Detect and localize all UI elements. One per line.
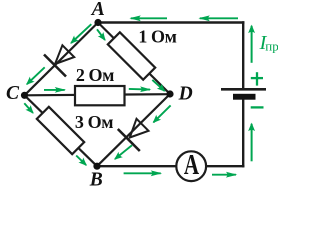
current arrow: branch A-D near A xyxy=(97,29,105,40)
battery polarity label plus xyxy=(251,72,263,85)
current arrow: up along right wire below battery xyxy=(251,124,253,162)
current arrow: branch A-C near A xyxy=(71,24,91,43)
current arrow: branch A-C near C xyxy=(27,67,45,84)
ammeter PA body xyxy=(176,151,206,181)
wire: right vertical upper, corner to battery positive plate xyxy=(242,21,244,88)
node C junction dot xyxy=(21,92,28,99)
current arrow: branch C-B into B xyxy=(76,156,86,166)
current arrow: branch C-B near C xyxy=(24,103,33,113)
diode VD1 triangle (anode at A side, pointing to C) xyxy=(55,45,74,64)
wire: top horizontal from node A to top-right corner xyxy=(98,21,244,23)
wire: bottom horizontal, corner to ammeter right terminal xyxy=(207,165,245,167)
wire: right vertical lower, battery negative to bottom-right corner xyxy=(242,100,244,168)
diode VD2 triangle (anode at D side, pointing to B) xyxy=(130,119,149,138)
resistor R2 (2 Om) body xyxy=(75,86,125,105)
current arrow: branch D-B near D xyxy=(154,105,171,122)
node B junction dot xyxy=(93,163,100,170)
wire: branch C to D (horizontal middle) xyxy=(25,94,171,95)
diode VD2 cathode bar xyxy=(118,129,140,151)
wire: branch D to B (diagonal) xyxy=(97,94,170,166)
svg-text:A: A xyxy=(184,150,199,181)
battery GB negative plate (short thick) xyxy=(233,94,256,100)
node D junction dot xyxy=(166,90,173,97)
svg-text:C: C xyxy=(6,83,20,104)
wire: bottom horizontal, ammeter left terminal to node B xyxy=(97,165,176,167)
current arrow: bottom wire right-pointing after ammeter xyxy=(212,174,236,176)
svg-text:B: B xyxy=(89,169,103,190)
resistor R1 (1 Om) body xyxy=(108,32,155,79)
current arrow: forward current I_pr up along right wire xyxy=(251,26,253,63)
diode VD1 cathode bar xyxy=(44,55,66,77)
battery polarity label minus xyxy=(251,106,264,108)
current arrow: branch D-B into B xyxy=(115,145,132,159)
current arrow: branch C-D before resistor R2 xyxy=(44,89,65,91)
wire: branch A to D (diagonal) xyxy=(98,23,170,95)
svg-text:A: A xyxy=(90,0,105,20)
current arrow: top wire left-pointing (outer) xyxy=(200,17,238,19)
battery GB positive plate (long thin) xyxy=(221,88,266,91)
node A junction dot xyxy=(94,19,101,26)
resistor R3 (3 Om) body xyxy=(37,107,84,154)
wire: branch C to B (diagonal) xyxy=(25,95,98,166)
svg-text:2 Ом: 2 Ом xyxy=(76,65,114,85)
current arrow: top wire left-pointing (inner, near A) xyxy=(131,17,167,19)
svg-text:1 Ом: 1 Ом xyxy=(138,27,176,47)
svg-text:3 Ом: 3 Ом xyxy=(75,112,113,132)
wire: branch A to C (diagonal) xyxy=(25,23,99,96)
current arrow: branch C-D after resistor R2 into D xyxy=(129,88,150,91)
svg-text:D: D xyxy=(178,84,193,105)
current arrow: branch A-D into D xyxy=(152,80,164,91)
svg-text:пр: пр xyxy=(265,38,278,53)
current arrow: bottom wire right-pointing before ammeter xyxy=(124,172,161,174)
